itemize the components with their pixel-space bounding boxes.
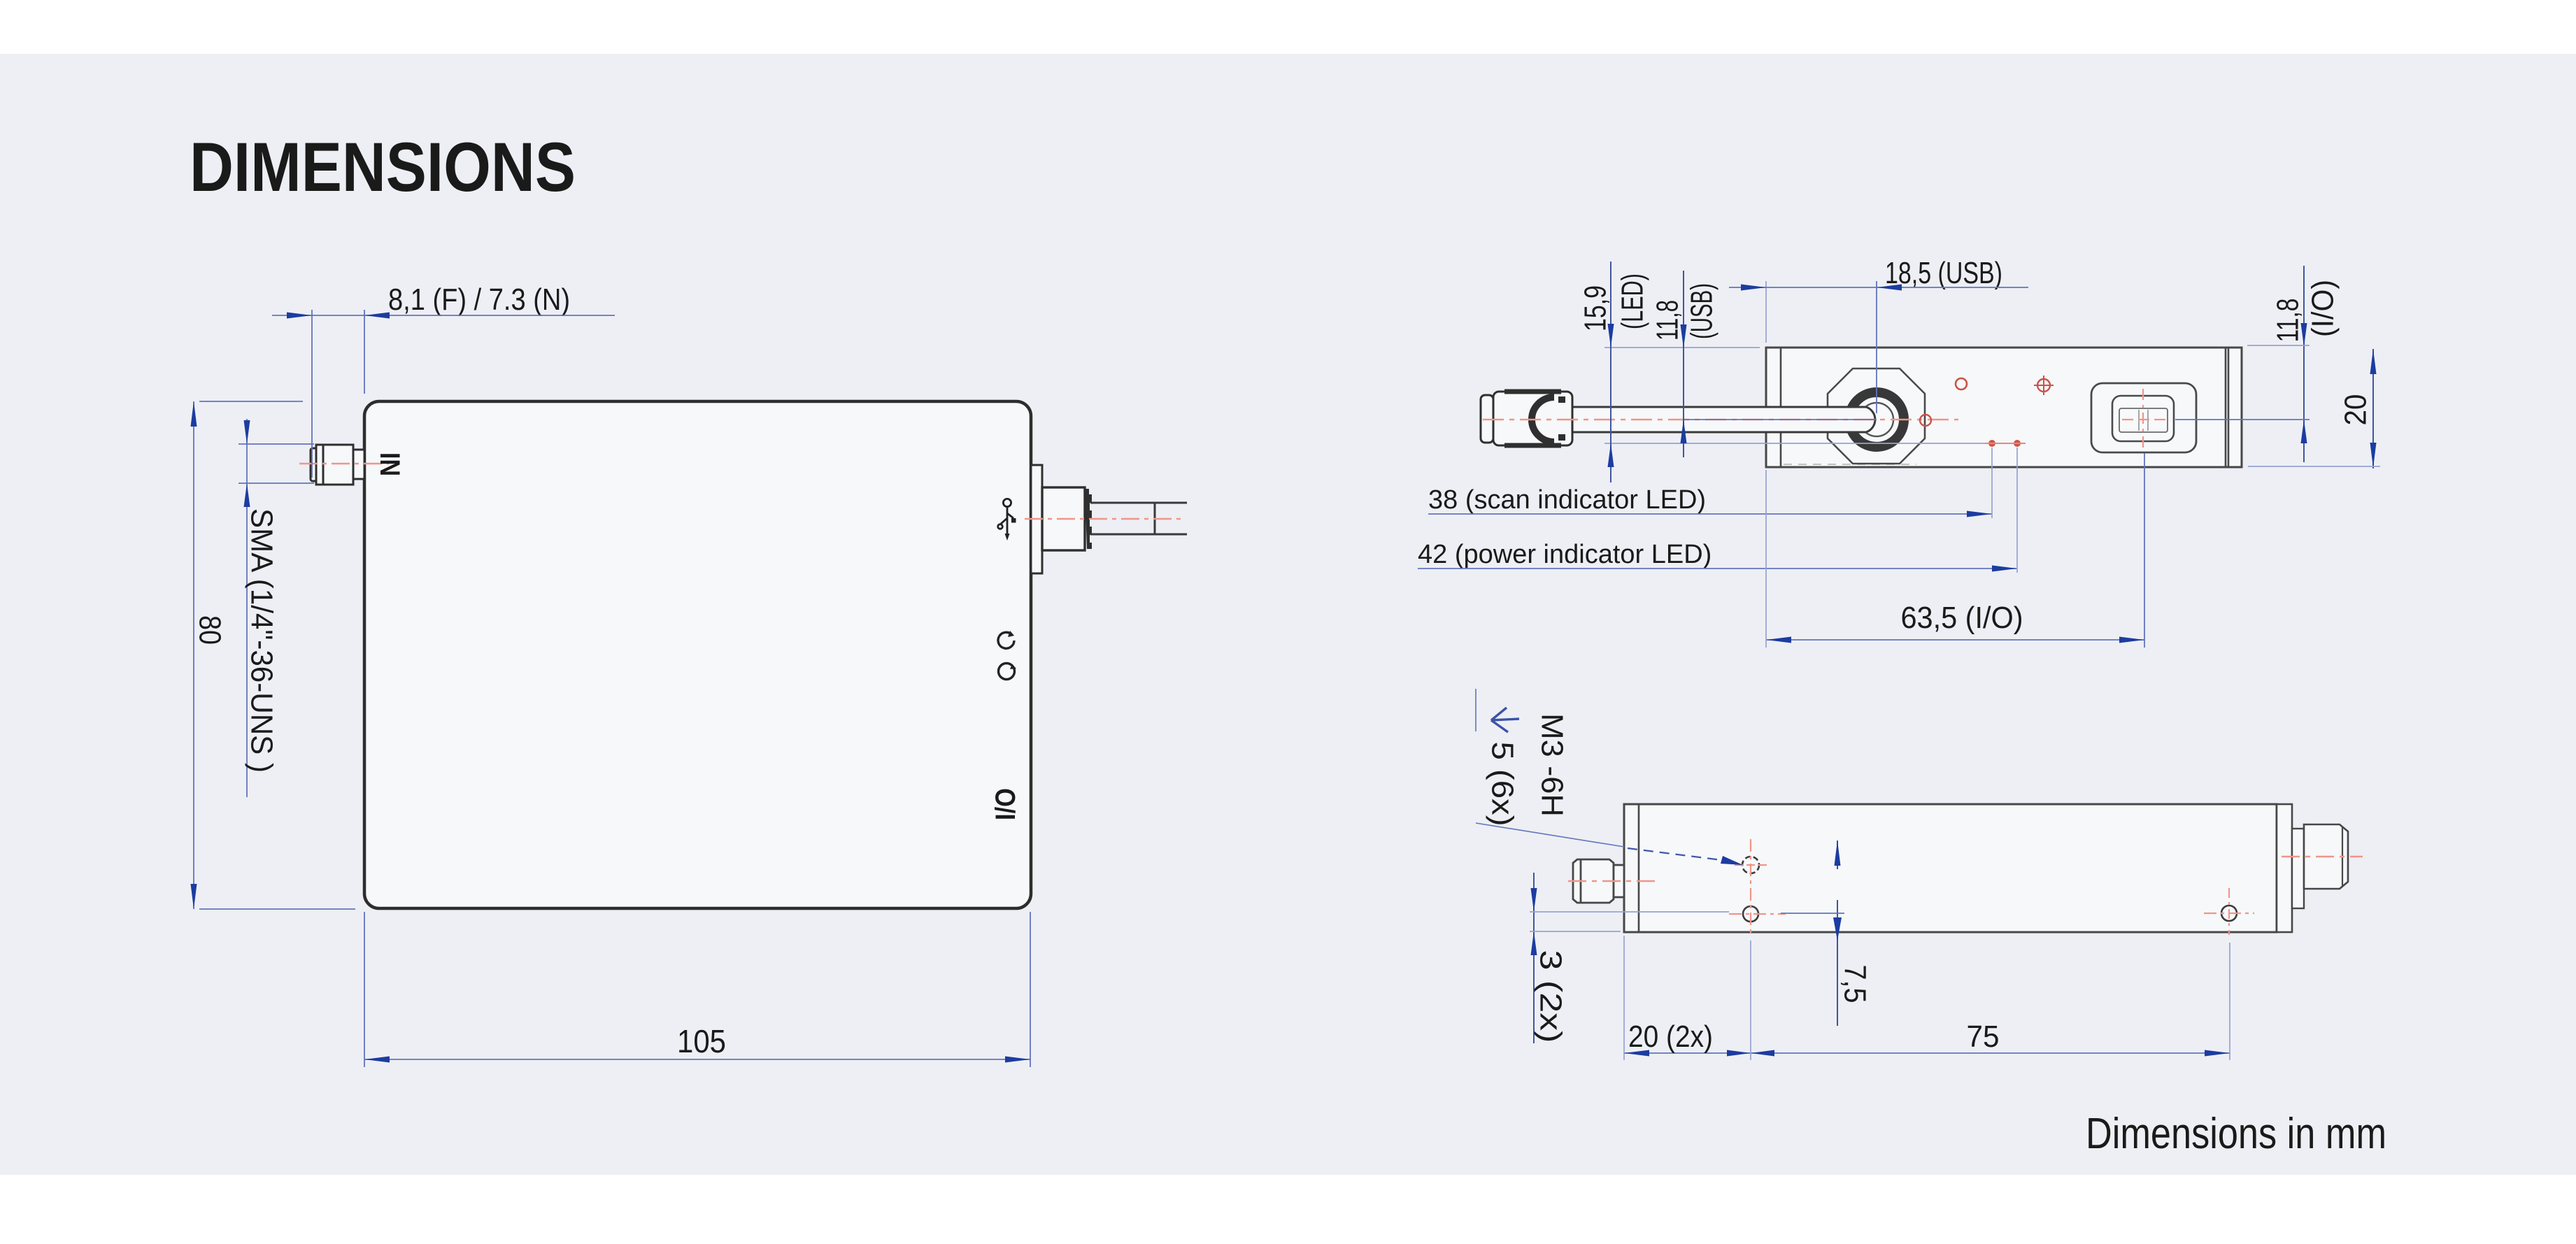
red centerline through SMA bbox=[299, 463, 389, 464]
body outline bbox=[1624, 804, 2277, 932]
dim 11,8 (USB) bbox=[1683, 271, 1684, 457]
body outline bbox=[1766, 348, 2242, 467]
svg-text:(I/O): (I/O) bbox=[2306, 280, 2340, 337]
dim 105 (bottom) bbox=[364, 912, 1030, 1067]
dim 80 (left vertical) bbox=[194, 401, 355, 909]
svg-text:I/O: I/O bbox=[990, 788, 1021, 820]
svg-text:DIMENSIONS: DIMENSIONS bbox=[190, 128, 576, 206]
dim 11,8 (I/O) right bbox=[2303, 266, 2305, 462]
red circle A bbox=[1956, 378, 1967, 389]
depth arrow icon bbox=[1491, 708, 1519, 732]
USB cable going into socket bbox=[1572, 407, 1875, 432]
device body outline bbox=[364, 401, 1031, 908]
dim 15,9 (LED) bbox=[1610, 262, 1611, 482]
USB trident icon bbox=[998, 499, 1016, 541]
USB round socket ring bbox=[1849, 392, 1904, 447]
red centerline through USB bbox=[1025, 518, 1181, 520]
recycle icon bbox=[998, 631, 1014, 648]
red centermarks bbox=[1729, 839, 2254, 937]
ext line body left edge up bbox=[1765, 281, 1767, 343]
mounting holes bbox=[1742, 857, 1759, 873]
svg-text:63,5 (I/O): 63,5 (I/O) bbox=[1901, 601, 2023, 635]
SMA connector (left, top view) bbox=[311, 445, 364, 485]
ext line LED row bbox=[1604, 443, 1985, 444]
svg-text:105: 105 bbox=[677, 1023, 726, 1059]
dim 3 (2x) bbox=[1533, 873, 1535, 1043]
dim 20 right bbox=[2372, 349, 2374, 469]
svg-text:11,8: 11,8 bbox=[2271, 299, 2305, 343]
crimp jagged edge bbox=[1085, 489, 1092, 549]
svg-text:Dimensions in mm: Dimensions in mm bbox=[2086, 1110, 2386, 1158]
svg-text:20 (2x): 20 (2x) bbox=[1628, 1020, 1713, 1054]
octagon boss around USB socket bbox=[1828, 369, 1925, 464]
svg-text:18,5 (USB): 18,5 (USB) bbox=[1885, 256, 2002, 290]
svg-text:80: 80 bbox=[193, 615, 227, 645]
M12 mount bbox=[2292, 829, 2304, 908]
SMA bolt left bbox=[1573, 859, 1624, 903]
svg-text:3 (2x): 3 (2x) bbox=[1534, 950, 1568, 1043]
svg-text:8,1 (F) / 7.3 (N): 8,1 (F) / 7.3 (N) bbox=[388, 283, 570, 317]
red target B bbox=[2037, 379, 2050, 392]
svg-text:15,9: 15,9 bbox=[1579, 285, 1613, 331]
svg-text:IN: IN bbox=[374, 452, 405, 476]
cable bbox=[1090, 503, 1187, 534]
svg-text:75: 75 bbox=[1967, 1020, 2000, 1054]
svg-text:M3 -6H: M3 -6H bbox=[1535, 713, 1570, 817]
dim SMA label bbox=[239, 419, 314, 797]
svg-text:5 (6x): 5 (6x) bbox=[1486, 742, 1520, 827]
M12 connector bbox=[2304, 824, 2348, 889]
svg-text:(LED): (LED) bbox=[1616, 273, 1650, 329]
USB tab on right edge bbox=[1031, 465, 1042, 573]
right end cap bbox=[2277, 804, 2292, 932]
small red circle at socket right bbox=[1920, 415, 1931, 426]
svg-text:20: 20 bbox=[2339, 394, 2373, 426]
LED dots bbox=[1988, 440, 1995, 447]
ext line USB centerline (blue over red) bbox=[1684, 419, 1877, 420]
clock/reset icon bbox=[999, 664, 1017, 680]
svg-text:38 (scan indicator LED): 38 (scan indicator LED) bbox=[1428, 485, 1706, 515]
ext line USB center up bbox=[1876, 281, 1877, 413]
svg-text:SMA (1/4"-36-UNS ): SMA (1/4"-36-UNS ) bbox=[245, 508, 279, 773]
USB plug / strain relief at cable end bbox=[1481, 392, 1572, 445]
svg-text:7,5: 7,5 bbox=[1838, 965, 1872, 1003]
svg-text:11,8: 11,8 bbox=[1651, 300, 1685, 341]
USB plug body bbox=[1042, 487, 1085, 550]
dim 7,5 bbox=[1837, 841, 1838, 869]
M3 leader bbox=[1475, 689, 1476, 731]
dim 20 (2x) and 75 bbox=[1624, 1052, 2230, 1054]
ext line top face bbox=[1604, 347, 1760, 348]
svg-text:42 (power indicator LED): 42 (power indicator LED) bbox=[1418, 540, 1712, 569]
red centerline of cable bbox=[1483, 419, 1958, 420]
svg-text:(USB): (USB) bbox=[1685, 283, 1719, 339]
I/O connector bbox=[2091, 383, 2196, 452]
